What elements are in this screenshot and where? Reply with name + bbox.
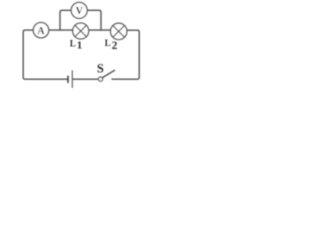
svg-text:1: 1: [77, 40, 83, 52]
svg-text:L: L: [105, 38, 111, 48]
svg-text:2: 2: [112, 40, 118, 52]
svg-text:A: A: [37, 26, 45, 37]
svg-text:L: L: [70, 38, 76, 48]
svg-text:S: S: [97, 61, 104, 75]
svg-text:V: V: [76, 6, 84, 17]
